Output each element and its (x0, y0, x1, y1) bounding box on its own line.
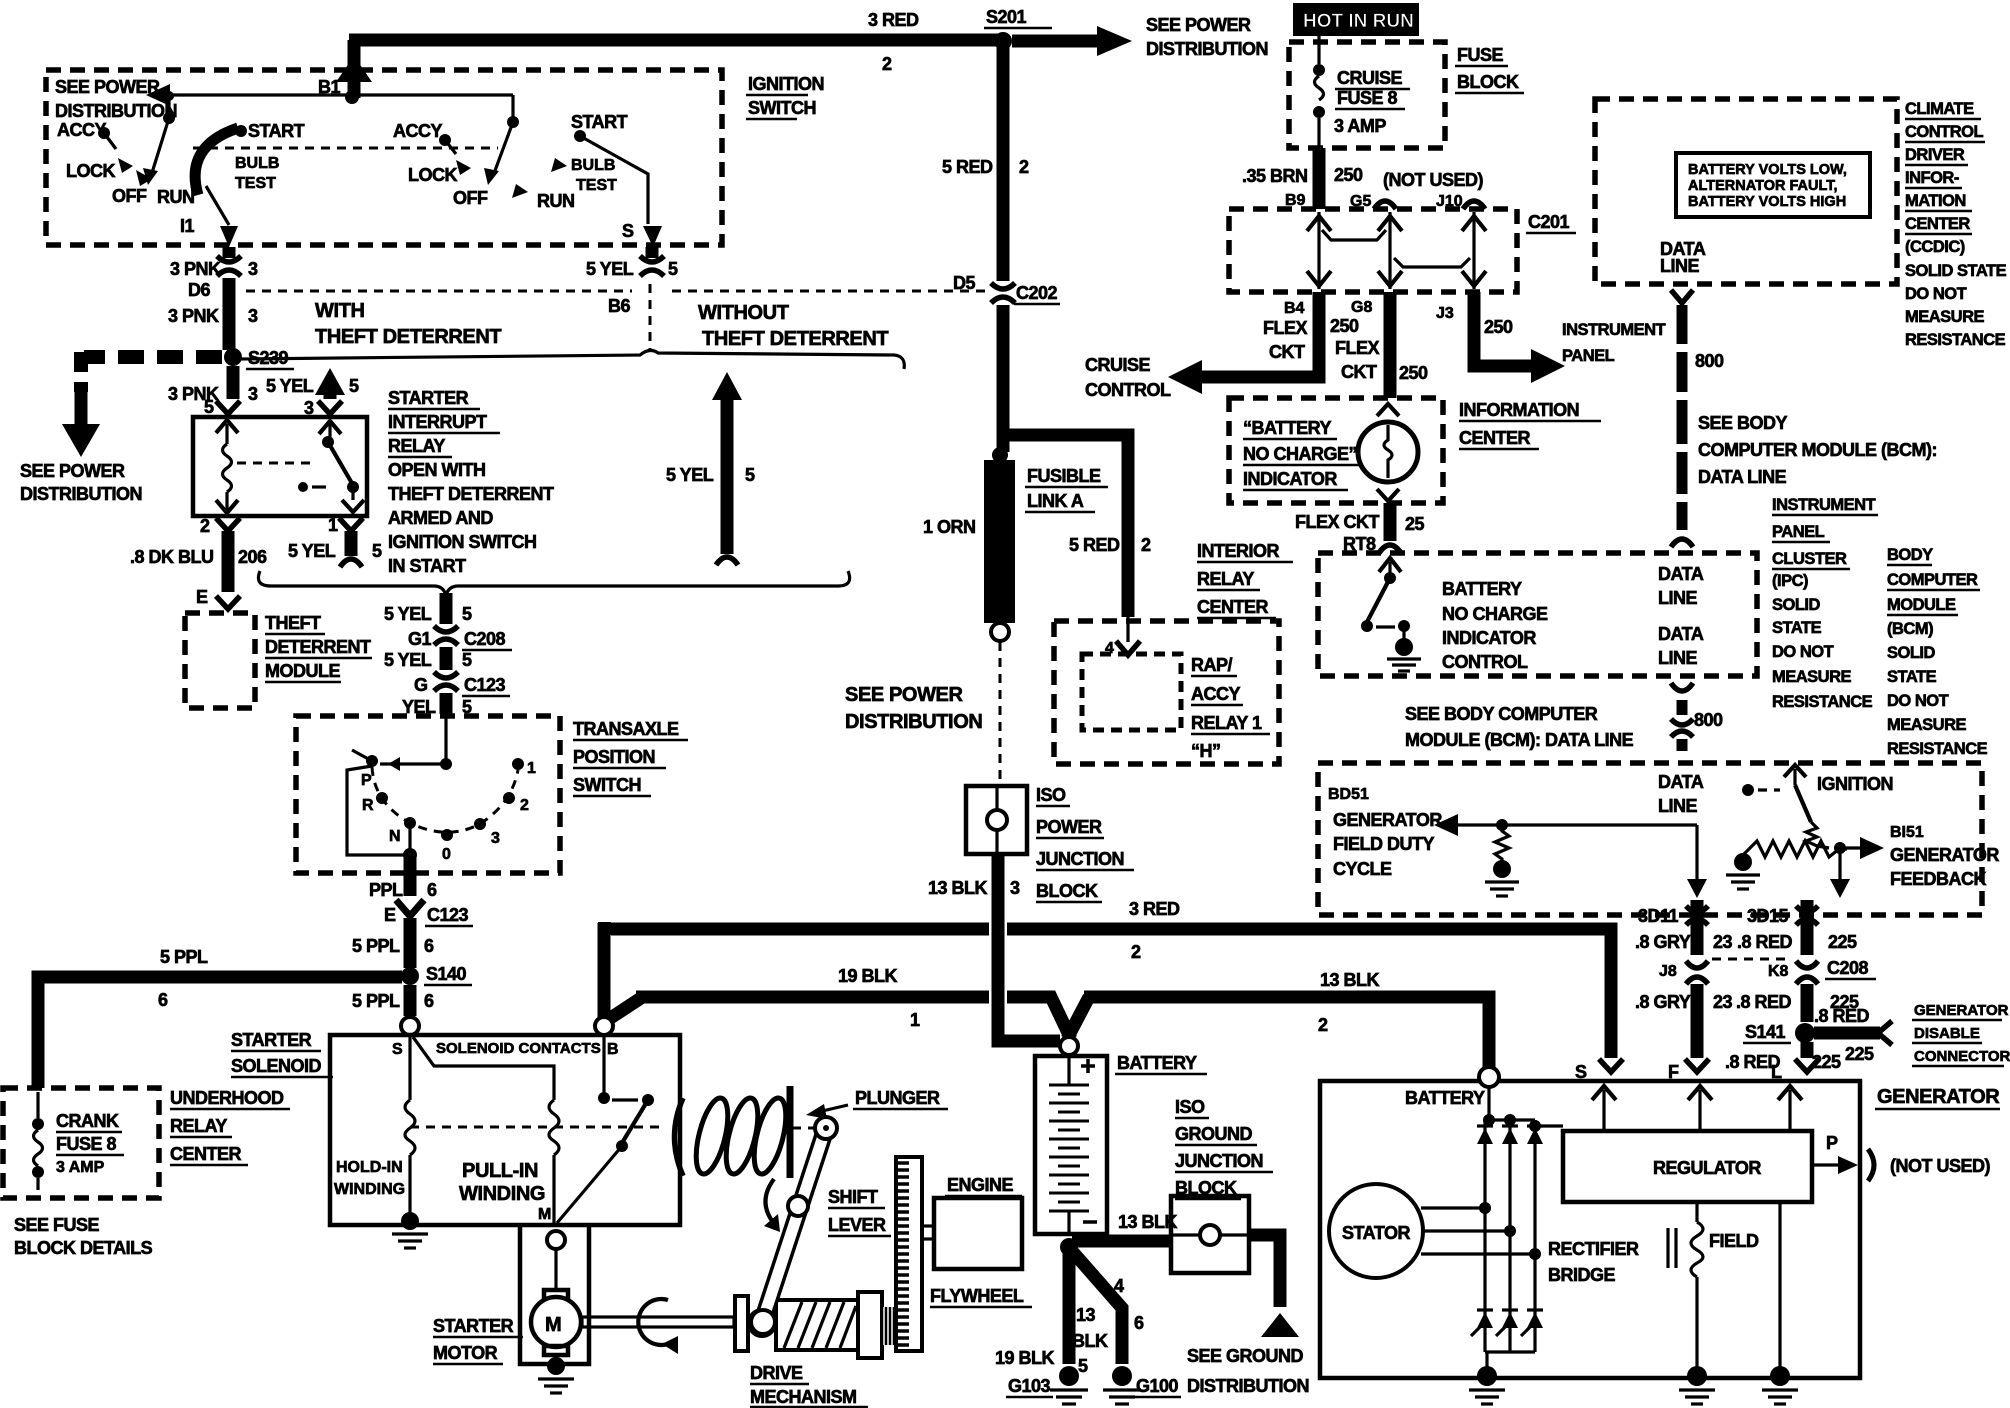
hot in run banner (1293, 3, 1419, 36)
svg-text:CENTER: CENTER (1197, 597, 1269, 617)
dashed wire below fusible link (999, 642, 1002, 786)
svg-text:BATTERY: BATTERY (1117, 1053, 1197, 1073)
svg-text:DRIVE: DRIVE (750, 1363, 803, 1383)
switch 1 bulb test label (235, 155, 279, 192)
svg-text:POWER: POWER (1036, 817, 1102, 837)
label flywheel (930, 1286, 1032, 1307)
svg-text:5 PPL: 5 PPL (160, 947, 208, 967)
label engine (945, 1175, 1022, 1196)
svg-text:“H”: “H” (1191, 741, 1221, 761)
drive gear hatched (776, 1300, 858, 1350)
rotation arrow (638, 1299, 678, 1354)
svg-text:BATTERY: BATTERY (1405, 1088, 1485, 1108)
svg-text:FLEX CKT: FLEX CKT (1295, 512, 1380, 532)
svg-text:(NOT USED): (NOT USED) (1383, 170, 1484, 190)
wire 5 RED C202 to fusible link tee (997, 305, 1010, 452)
svg-text:PANEL: PANEL (1772, 523, 1825, 541)
svg-text:SOLID: SOLID (1887, 644, 1936, 662)
shift lever rotation arrow (764, 1179, 780, 1232)
svg-text:BLOCK DETAILS: BLOCK DETAILS (14, 1238, 153, 1258)
svg-text:STATE: STATE (1887, 668, 1937, 686)
svg-text:B4: B4 (1284, 300, 1305, 317)
svg-text:DISTRIBUTION: DISTRIBUTION (845, 711, 982, 733)
svg-text:THEFT DETERRENT: THEFT DETERRENT (388, 484, 554, 504)
wire 5 YEL up arrow to relay pin 3 (266, 368, 359, 418)
wire 13 BLK 4 to iso ground junction block (1072, 1212, 1178, 1296)
svg-text:SEE POWER: SEE POWER (845, 684, 963, 706)
svg-text:PPL: PPL (369, 880, 403, 900)
svg-text:DISABLE: DISABLE (1914, 1025, 1980, 1042)
label S B solenoid contacts (392, 1040, 619, 1058)
svg-text:DO NOT: DO NOT (1772, 643, 1834, 661)
svg-text:STARTER: STARTER (231, 1030, 312, 1050)
svg-text:E: E (196, 587, 208, 607)
svg-text:19 BLK: 19 BLK (995, 1348, 1055, 1368)
wire 3 RED top feed from B1 to S201 (349, 34, 1003, 47)
svg-text:INDICATOR: INDICATOR (1243, 469, 1337, 489)
svg-text:GROUND: GROUND (1175, 1124, 1252, 1144)
svg-text:BATTERY VOLTS LOW,: BATTERY VOLTS LOW, (1688, 162, 1847, 178)
svg-text:G103: G103 (1008, 1376, 1051, 1396)
connector E to theft deterrent module (196, 587, 240, 609)
fuse crank fuse 8 (32, 1092, 44, 1190)
label fusible link a (1025, 466, 1108, 512)
svg-text:MEASURE: MEASURE (1905, 308, 1985, 326)
node S201 (984, 7, 1052, 50)
starter motor enclosure (520, 1225, 589, 1364)
svg-text:RELAY: RELAY (170, 1116, 227, 1136)
climate control driver information center box (1595, 99, 1897, 284)
svg-text:FIELD DUTY: FIELD DUTY (1333, 834, 1434, 854)
C201 internal path B9-B4 (1307, 212, 1331, 289)
label body computer module column (1887, 546, 1988, 758)
switch 1 feed node (163, 91, 175, 124)
label pull-in winding (459, 1160, 545, 1205)
switch 2 LOCK contact (408, 160, 471, 185)
svg-text:0: 0 (442, 846, 451, 863)
svg-text:OPEN WITH: OPEN WITH (388, 460, 486, 480)
wire 5 PPL to S140 (352, 918, 434, 968)
svg-text:13 BLK: 13 BLK (1320, 970, 1380, 990)
svg-text:MEASURE: MEASURE (1772, 668, 1852, 686)
svg-text:BRIDGE: BRIDGE (1548, 1265, 1615, 1285)
svg-text:GENERATOR: GENERATOR (1890, 845, 1999, 865)
svg-text:R: R (362, 797, 374, 814)
mechanical link dashed (193, 147, 498, 150)
svg-text:3 PNK: 3 PNK (168, 306, 219, 326)
wire 3D15 .8 RED to K8 (1737, 900, 1857, 955)
resistor to ground in bcm (1485, 825, 1519, 896)
svg-text:RUN: RUN (157, 187, 195, 207)
terminal L internal (1778, 1086, 1802, 1131)
svg-text:2: 2 (1131, 942, 1141, 962)
svg-text:225: 225 (1828, 932, 1857, 952)
svg-text:CONNECTOR: CONNECTOR (1914, 1048, 2010, 1065)
stator leads (1421, 1202, 1541, 1260)
svg-text:2: 2 (1019, 157, 1029, 177)
svg-text:1: 1 (910, 1010, 920, 1030)
wire internal feed line (146, 84, 513, 106)
label underhood relay center (170, 1088, 290, 1165)
terminal J10 (1436, 193, 1485, 210)
label data line lower (1658, 624, 1704, 668)
svg-text:MEASURE: MEASURE (1887, 716, 1967, 734)
svg-text:5: 5 (462, 650, 472, 670)
label see power distribution (in box) (55, 77, 177, 121)
control switch internals (1361, 558, 1410, 640)
label transaxle position switch (573, 719, 688, 796)
svg-text:PULL-IN: PULL-IN (462, 1160, 538, 1182)
mech dashed line through windings (410, 1126, 662, 1129)
wire P not used (1812, 1133, 1991, 1181)
svg-text:N: N (389, 828, 401, 845)
label drive mechanism (750, 1363, 868, 1407)
label generator disable connector (1912, 1002, 2010, 1066)
svg-text:3 AMP: 3 AMP (1334, 116, 1386, 136)
wire 5 YEL without-theft vertical (666, 372, 755, 565)
svg-text:13 BLK: 13 BLK (928, 878, 988, 898)
svg-text:FUSIBLE: FUSIBLE (1027, 466, 1101, 486)
svg-text:CRUISE: CRUISE (1337, 68, 1403, 88)
svg-text:ISO: ISO (1036, 785, 1066, 805)
label see power distribution (left) (20, 461, 142, 504)
svg-text:BODY: BODY (1887, 546, 1933, 564)
label ignition switch (746, 74, 824, 119)
switch 2 START contact (571, 112, 628, 142)
switch contact arc (372, 758, 524, 841)
svg-text:RELAY: RELAY (1197, 569, 1254, 589)
svg-text:RELAY: RELAY (388, 436, 445, 456)
connector K8 C208 (1768, 958, 1876, 984)
drive mechanism (735, 1296, 775, 1351)
node B terminal circle (595, 1017, 613, 1035)
svg-text:STATE: STATE (1772, 619, 1822, 637)
connector C123 E (384, 900, 473, 926)
svg-text:.35 BRN: .35 BRN (1242, 166, 1308, 186)
svg-text:SEE FUSE: SEE FUSE (14, 1215, 100, 1235)
svg-text:CENTER: CENTER (1459, 428, 1531, 448)
svg-text:MODULE (BCM): DATA LINE: MODULE (BCM): DATA LINE (1405, 730, 1634, 750)
svg-text:MODULE: MODULE (1887, 596, 1956, 614)
engine box (922, 1198, 1022, 1269)
svg-text:RESISTANCE: RESISTANCE (1772, 693, 1873, 711)
svg-text:CONTROL: CONTROL (1085, 380, 1171, 400)
svg-text:5 YEL: 5 YEL (266, 376, 314, 396)
svg-text:BULB: BULB (571, 157, 615, 174)
svg-text:WITH: WITH (315, 300, 365, 322)
wire 6 to G100 (1072, 1251, 1144, 1364)
svg-text:800: 800 (1694, 710, 1723, 730)
svg-text:SEE POWER: SEE POWER (20, 461, 125, 481)
svg-text:I1: I1 (180, 216, 195, 236)
svg-text:THEFT: THEFT (265, 613, 321, 633)
svg-text:LINE: LINE (1660, 256, 1699, 276)
switch 1 LOCK contact (66, 158, 133, 181)
label battery no charge indicator (1243, 418, 1360, 490)
svg-text:(BCM): (BCM) (1887, 620, 1933, 638)
svg-text:C208: C208 (1827, 958, 1869, 978)
wire START to S with arrow (580, 136, 662, 247)
label shift lever (828, 1187, 891, 1236)
svg-text:INSTRUMENT: INSTRUMENT (1562, 321, 1666, 339)
wire .8 GRY 23 to F terminal (1635, 984, 1733, 1082)
svg-text:5 PPL: 5 PPL (352, 991, 400, 1011)
label plunger with arrow (806, 1088, 948, 1119)
svg-text:S141: S141 (1745, 1022, 1786, 1042)
svg-text:ARMED AND: ARMED AND (388, 508, 493, 528)
generator box (1320, 1081, 1860, 1378)
svg-text:IGNITION: IGNITION (1817, 774, 1893, 794)
svg-text:SWITCH: SWITCH (748, 98, 816, 118)
wire 13 BLK battery V right segment (1007, 970, 1489, 1072)
svg-text:IGNITION SWITCH: IGNITION SWITCH (388, 532, 537, 552)
label see body computer module data line (left) (1405, 704, 1634, 750)
svg-text:TEST: TEST (576, 177, 617, 194)
wire 3D11 .8 GRY to J8 (1635, 900, 1733, 955)
ground L (1762, 1366, 1798, 1404)
svg-text:CLUSTER: CLUSTER (1772, 550, 1847, 568)
svg-text:JUNCTION: JUNCTION (1175, 1151, 1263, 1171)
brace joining theft deterrent paths (258, 571, 849, 595)
relay RAP ACCY relay 1 box (1082, 654, 1181, 730)
label cruise fuse 8 3 amp (1334, 68, 1410, 136)
svg-text:19 BLK: 19 BLK (838, 966, 898, 986)
switch 2 RUN contact (512, 184, 575, 211)
wire flex ckt rt8 25 (1295, 503, 1425, 554)
svg-text:C208: C208 (464, 629, 506, 649)
ground in control box (1387, 638, 1421, 671)
svg-text:2: 2 (1141, 535, 1151, 555)
node fusible link tee (992, 447, 1008, 463)
battery no charge indicator control box (1318, 553, 1757, 676)
svg-text:CONTROL: CONTROL (1442, 652, 1528, 672)
wire 5 YEL between connectors (384, 647, 472, 670)
svg-text:G: G (414, 675, 428, 695)
wire .8 RED 225 to L terminal (1725, 1042, 1841, 1082)
label rap accy relay 1 H (1191, 655, 1270, 761)
switch 2 ACCY contact (393, 121, 456, 154)
svg-text:5: 5 (204, 397, 214, 417)
svg-text:RELAY 1: RELAY 1 (1191, 713, 1262, 733)
svg-text:5: 5 (462, 604, 472, 624)
relay mech dashed link (237, 463, 326, 492)
svg-text:FUSE 8: FUSE 8 (1337, 88, 1398, 108)
label battery (1115, 1053, 1207, 1074)
terminal B1 arrow (318, 40, 372, 98)
switch 2 feed node (507, 95, 519, 128)
svg-text:4: 4 (1114, 1276, 1124, 1296)
svg-text:3D15: 3D15 (1747, 906, 1789, 926)
fuse block dashed box (1289, 42, 1445, 148)
svg-text:“BATTERY: “BATTERY (1243, 418, 1331, 438)
label rectifier bridge (1548, 1239, 1639, 1285)
svg-text:6: 6 (424, 936, 434, 956)
svg-text:THEFT DETERRENT: THEFT DETERRENT (702, 328, 888, 350)
svg-text:INFORMATION: INFORMATION (1459, 400, 1579, 420)
svg-text:6: 6 (427, 880, 437, 900)
svg-text:LEVER: LEVER (828, 1215, 886, 1235)
svg-text:ISO: ISO (1175, 1097, 1205, 1117)
svg-text:3 PNK: 3 PNK (170, 259, 221, 279)
label iso power junction block (1036, 785, 1134, 902)
svg-text:5 PPL: 5 PPL (352, 936, 400, 956)
fusible link A (984, 460, 1015, 641)
switch 1 START contact (235, 121, 305, 141)
rectifier bridge verticals (1483, 1087, 1563, 1352)
field winding (1668, 1202, 1759, 1372)
svg-text:DATA LINE: DATA LINE (1698, 467, 1787, 487)
ISO power junction block (966, 786, 1027, 854)
svg-text:K8: K8 (1768, 963, 1789, 980)
svg-text:1: 1 (328, 515, 338, 535)
label see fuse block details (14, 1215, 153, 1258)
svg-text:ACCY: ACCY (1191, 684, 1240, 704)
svg-text:INSTRUMENT: INSTRUMENT (1772, 496, 1876, 514)
stator (1329, 1184, 1423, 1278)
svg-text:S140: S140 (426, 964, 467, 984)
svg-text:C202: C202 (1016, 283, 1058, 303)
svg-text:FEEDBACK: FEEDBACK (1890, 869, 1987, 889)
node generator battery terminal (1405, 1067, 1499, 1108)
svg-text:.8 GRY: .8 GRY (1635, 992, 1691, 1012)
svg-text:BATTERY: BATTERY (1442, 579, 1522, 599)
svg-text:FIELD: FIELD (1709, 1231, 1759, 1251)
diodes bottom zener (1471, 1310, 1543, 1336)
wire B4 flex ckt to cruise control (1168, 292, 1359, 394)
svg-text:3: 3 (248, 306, 258, 326)
transaxle position switch box (296, 716, 560, 873)
wire PPL out of switch (369, 855, 437, 900)
svg-text:3D11: 3D11 (1638, 906, 1679, 926)
svg-text:SOLID: SOLID (1772, 596, 1821, 614)
svg-text:SEE BODY: SEE BODY (1698, 413, 1788, 433)
svg-text:13: 13 (1076, 1305, 1096, 1325)
svg-text:CRUISE: CRUISE (1085, 355, 1151, 375)
svg-text:STARTER: STARTER (388, 388, 469, 408)
svg-text:G8: G8 (1351, 299, 1372, 316)
label ignition (1817, 774, 1893, 794)
svg-text:3 AMP: 3 AMP (56, 1159, 105, 1176)
node battery positive (1060, 1037, 1078, 1055)
svg-text:3: 3 (248, 384, 258, 404)
svg-text:CKT: CKT (1269, 342, 1305, 362)
svg-text:INFOR-: INFOR- (1905, 169, 1959, 187)
svg-text:C201: C201 (1528, 212, 1570, 232)
svg-text:WITHOUT: WITHOUT (698, 302, 789, 324)
wire B6 dashed drop (649, 284, 652, 350)
svg-text:.8 GRY: .8 GRY (1635, 932, 1691, 952)
label instrument panel cluster column (1772, 496, 1878, 711)
svg-text:WINDING: WINDING (459, 1183, 545, 1205)
svg-text:START: START (571, 112, 628, 132)
plunger coil (675, 1086, 793, 1178)
svg-text:CYCLE: CYCLE (1333, 859, 1392, 879)
label data line in bcm box (1658, 772, 1704, 816)
switch 1 blade (143, 118, 169, 185)
ground starter motor (538, 1357, 574, 1393)
svg-text:RESISTANCE: RESISTANCE (1887, 740, 1988, 758)
svg-text:PANEL: PANEL (1562, 347, 1615, 365)
svg-text:5 YEL: 5 YEL (586, 259, 634, 279)
label BD51 generator field duty cycle (1328, 786, 1442, 879)
wire 3 RED left segment to solenoid B (598, 922, 989, 1018)
svg-text:.8 DK BLU: .8 DK BLU (130, 547, 214, 567)
terminal G5 (1350, 193, 1396, 210)
svg-text:E: E (384, 905, 396, 925)
wire .35 BRN fuse to C201 (1242, 148, 1363, 209)
label see power distribution (middle) (845, 684, 982, 733)
svg-text:NO CHARGE”: NO CHARGE” (1243, 444, 1357, 464)
svg-text:S239: S239 (248, 348, 289, 368)
relay contact (319, 421, 364, 512)
drive flange (858, 1292, 882, 1358)
motor output shaft (582, 1317, 734, 1327)
svg-text:LOCK: LOCK (408, 165, 457, 185)
svg-text:TEST: TEST (235, 175, 276, 192)
label starter motor (433, 1316, 523, 1364)
label 3 RED 2 (868, 10, 919, 74)
svg-text:GENERATOR: GENERATOR (1914, 1002, 2009, 1019)
wire S201 to power distribution arrow (1012, 26, 1132, 56)
svg-text:250: 250 (1334, 165, 1363, 185)
solenoid contact B (557, 1035, 654, 1223)
svg-text:THEFT DETERRENT: THEFT DETERRENT (315, 326, 501, 348)
svg-text:J8: J8 (1659, 963, 1677, 980)
svg-text:250: 250 (1399, 363, 1428, 383)
ground rectifier (1469, 1352, 1505, 1404)
svg-text:5 RED: 5 RED (942, 157, 993, 177)
svg-text:HOLD-IN: HOLD-IN (336, 1159, 403, 1176)
label see ground distribution (1187, 1346, 1309, 1396)
shift lever (751, 1117, 837, 1334)
label see power distribution (top) (1146, 15, 1268, 59)
ignition switch in bcm (1742, 765, 1829, 848)
wire S141 to generator disable connector (1814, 1006, 1892, 1064)
svg-text:BULB: BULB (235, 155, 279, 172)
svg-text:SEE GROUND: SEE GROUND (1187, 1346, 1304, 1366)
svg-text:D6: D6 (188, 280, 210, 300)
connector S/B6 (586, 247, 678, 316)
svg-text:DO NOT: DO NOT (1887, 692, 1949, 710)
C201 bus jog upper (1322, 230, 1386, 240)
switch 1 OFF contact (112, 170, 152, 206)
svg-text:DO NOT: DO NOT (1905, 285, 1967, 303)
svg-text:1 ORN: 1 ORN (923, 517, 976, 537)
label generator (1875, 1086, 2000, 1109)
svg-text:B6: B6 (608, 296, 630, 316)
svg-text:TRANSAXLE: TRANSAXLE (573, 719, 679, 739)
svg-text:206: 206 (238, 547, 267, 567)
svg-text:ACCY: ACCY (393, 121, 442, 141)
svg-text:NO CHARGE: NO CHARGE (1442, 604, 1548, 624)
svg-text:JUNCTION: JUNCTION (1036, 849, 1124, 869)
svg-text:M: M (545, 1314, 561, 1336)
battery (1035, 1056, 1107, 1234)
node S141 (1743, 1022, 1815, 1043)
svg-text:225: 225 (1845, 1044, 1874, 1064)
message window box (1676, 153, 1870, 217)
starter motor M (531, 1249, 581, 1364)
svg-text:DETERRENT: DETERRENT (265, 637, 371, 657)
svg-text:250: 250 (1484, 317, 1513, 337)
C201 internal path G5-G8 (1378, 212, 1402, 289)
splined shaft (882, 1307, 897, 1345)
svg-text:DISTRIBUTION: DISTRIBUTION (55, 101, 177, 121)
svg-text:GENERATOR: GENERATOR (1333, 810, 1442, 830)
svg-text:J3: J3 (1436, 305, 1454, 322)
wire 19 BLK 5 to G103 (995, 1247, 1108, 1376)
svg-text:LINE: LINE (1658, 796, 1697, 816)
